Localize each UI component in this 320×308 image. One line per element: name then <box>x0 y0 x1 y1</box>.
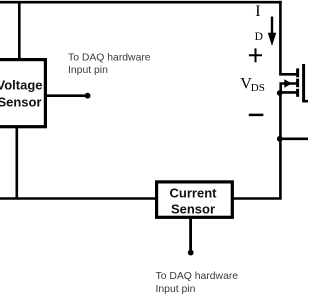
svg-text:Sensor: Sensor <box>0 95 42 110</box>
node: output pin dot <box>85 93 91 99</box>
wire: left vertical from voltage sensor down to bottom bus <box>15 127 18 199</box>
svg-text:I: I <box>255 3 260 20</box>
voltage sensor box <box>0 60 45 127</box>
wire: source lead <box>280 91 297 94</box>
label: plus sign <box>249 48 262 62</box>
wire: right vertical down from source to bottom elbow into current sensor <box>234 93 281 199</box>
label: minus sign <box>249 114 264 117</box>
node: load tap junction dot <box>277 136 283 142</box>
node: source junction dot <box>277 90 283 96</box>
svg-text:To DAQ hardware: To DAQ hardware <box>68 53 151 64</box>
svg-text:Voltage: Voltage <box>0 78 43 93</box>
wire: left vertical from top bus to voltage sensor <box>18 2 21 60</box>
wire: body lead with stub down to source node <box>281 84 297 93</box>
transistor Q1 drain contact bar <box>296 68 299 77</box>
transistor Q1 gate line <box>302 64 305 101</box>
wire: gate lead exiting right edge <box>302 100 308 103</box>
svg-text:DS: DS <box>251 82 265 94</box>
wire: bottom bus from left edge to current sensor <box>0 197 156 200</box>
transistor Q1 body contact bar <box>296 79 299 88</box>
svg-text:Input pin: Input pin <box>68 65 108 76</box>
svg-text:To DAQ hardware: To DAQ hardware <box>156 271 239 282</box>
current sensor box <box>157 182 233 217</box>
wire: tap to right edge <box>280 138 308 141</box>
svg-text:Current: Current <box>170 185 218 200</box>
transistor Q1 body arrow (points right into channel) <box>284 79 292 88</box>
wire: top bus from left edge to right corner <box>0 1 282 4</box>
node: output pin dot (bottom) <box>188 250 194 256</box>
svg-text:Input pin: Input pin <box>156 284 196 295</box>
svg-text:D: D <box>255 31 263 43</box>
arrow: current direction down <box>271 17 273 37</box>
wire: right vertical drop to MOSFET drain <box>280 1 297 74</box>
wire: current sensor output stub down <box>189 219 192 251</box>
svg-text:Sensor: Sensor <box>171 201 215 216</box>
transistor Q1 source contact bar <box>296 89 299 97</box>
wire: voltage sensor output lead <box>45 94 87 97</box>
